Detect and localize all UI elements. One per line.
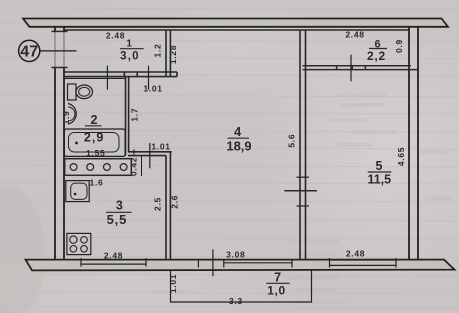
- svg-text:5,5: 5,5: [107, 212, 127, 227]
- svg-text:5.6: 5.6: [287, 134, 297, 148]
- wall between room 4 and rooms 5/6: [300, 30, 306, 260]
- apartment number circle 47: [19, 40, 40, 61]
- balcony outline: [171, 270, 312, 302]
- right exterior wall: [409, 27, 418, 260]
- balcony door long tick: [212, 250, 214, 277]
- bottom slab wall: [26, 260, 455, 271]
- svg-text:2.48: 2.48: [104, 250, 123, 260]
- svg-text:1.55: 1.55: [86, 148, 105, 158]
- kitchen right wall: [166, 152, 170, 260]
- svg-text:18,9: 18,9: [226, 138, 251, 153]
- svg-text:2.48: 2.48: [345, 30, 364, 40]
- room 1 right wall: [166, 30, 170, 77]
- svg-text:2.5: 2.5: [152, 197, 162, 211]
- bathroom top inner line: [64, 77, 126, 79]
- svg-text:3,0: 3,0: [120, 51, 140, 63]
- svg-text:1.9: 1.9: [61, 111, 71, 125]
- room 1 door jamb long ticks: [106, 66, 108, 90]
- scan light patch over right rooms: [255, 10, 459, 290]
- svg-text:2.6: 2.6: [170, 195, 180, 209]
- svg-text:2,9: 2,9: [84, 131, 104, 145]
- toilet tank: [68, 84, 77, 100]
- kitchen top wall: [128, 152, 172, 156]
- scan shadow bottom-left corner: [0, 185, 45, 313]
- top wall inner line: [64, 29, 409, 31]
- kitchen door dimension end tick: [133, 149, 135, 154]
- svg-text:0.42: 0.42: [129, 157, 139, 176]
- kitchen stove: [67, 233, 91, 254]
- svg-text:1: 1: [126, 39, 132, 50]
- bathtub: [64, 129, 125, 156]
- bathroom right wall: [126, 77, 129, 156]
- svg-text:2: 2: [91, 113, 98, 127]
- svg-text:1.28: 1.28: [168, 45, 178, 64]
- svg-text:1,0: 1,0: [267, 283, 285, 297]
- leader line from circle through entry door: [40, 50, 77, 52]
- kitchen window: [81, 258, 146, 267]
- svg-text:2.48: 2.48: [106, 30, 125, 40]
- svg-text:1.01: 1.01: [143, 83, 162, 93]
- svg-text:2,2: 2,2: [367, 49, 386, 63]
- kitchen sink: [66, 181, 89, 202]
- room 1 bottom wall: [64, 72, 177, 77]
- svg-text:1.7: 1.7: [130, 108, 140, 122]
- svg-text:1.6: 1.6: [90, 178, 104, 188]
- bedroom window: [330, 258, 397, 268]
- 0.42 dimension line: [141, 156, 143, 176]
- closet door long tick: [350, 55, 352, 82]
- faint bleed-through ghost marks: [150, 93, 453, 304]
- svg-text:11,5: 11,5: [367, 173, 391, 187]
- wash basin: [68, 104, 76, 125]
- door ticks in wall 4|5: [297, 176, 310, 178]
- room 6 bottom closet wall double line: [303, 66, 418, 70]
- vent block with circles: [65, 159, 132, 176]
- door leaf line room 4 to 5: [284, 190, 317, 192]
- balcony door unit dividers: [198, 260, 292, 268]
- top slab wall: [23, 19, 448, 27]
- kitchen door jamb long tick: [149, 143, 151, 168]
- svg-text:5: 5: [376, 159, 383, 173]
- svg-text:2.48: 2.48: [346, 249, 365, 259]
- entry door opening in left wall: [55, 31, 64, 67]
- svg-text:4.65: 4.65: [396, 147, 406, 166]
- svg-text:1.01: 1.01: [168, 274, 178, 293]
- svg-text:3.3: 3.3: [229, 296, 243, 306]
- toilet bowl: [76, 85, 93, 99]
- entry door jamb ticks: [52, 30, 68, 32]
- svg-text:3: 3: [116, 199, 123, 213]
- svg-text:1.01: 1.01: [151, 141, 170, 151]
- left exterior wall: [55, 27, 64, 260]
- svg-text:1.2: 1.2: [152, 44, 162, 58]
- svg-text:0.9: 0.9: [394, 39, 404, 53]
- svg-text:7: 7: [274, 271, 281, 285]
- svg-text:4: 4: [234, 124, 242, 139]
- svg-text:3.08: 3.08: [226, 250, 245, 260]
- svg-text:47: 47: [20, 44, 38, 61]
